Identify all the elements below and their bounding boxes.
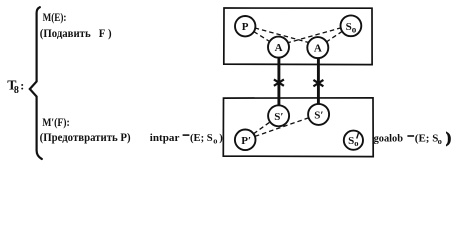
- node P: [235, 16, 255, 36]
- wire thick A right to S' right: [317, 58, 320, 104]
- label T8: [7, 77, 24, 96]
- node A right: [307, 37, 328, 58]
- text goalob -(E; So): [374, 131, 451, 147]
- svg-text:S′: S′: [274, 111, 283, 123]
- svg-text:intpar: intpar: [150, 132, 180, 144]
- svg-text:A: A: [314, 43, 322, 55]
- wire thick A left to S' left: [277, 58, 280, 106]
- node P': [235, 130, 256, 151]
- svg-text:(Подавить F ): (Подавить F ): [40, 26, 112, 40]
- wire dashed So to A right: [326, 31, 342, 42]
- wire dashed P to A right: [255, 28, 309, 43]
- node S' left: [268, 105, 289, 126]
- svg-text:o: o: [213, 136, 217, 145]
- svg-text:goalob: goalob: [374, 133, 403, 145]
- svg-text:P′: P′: [241, 135, 251, 147]
- svg-text:(E; S: (E; S: [415, 133, 439, 145]
- wire dashed P to A left: [254, 32, 270, 42]
- brace left: [30, 7, 42, 159]
- svg-text:A: A: [275, 42, 283, 54]
- svg-text:o: o: [354, 138, 358, 148]
- svg-text:8: 8: [14, 85, 19, 96]
- svg-text:o: o: [352, 24, 357, 34]
- svg-text:(Предотвратить Р): (Предотвратить Р): [40, 130, 131, 144]
- node So': [344, 131, 363, 150]
- node A left: [268, 37, 289, 58]
- svg-text:М′(F):: М′(F):: [42, 115, 70, 129]
- wire dashed P' to S' left: [254, 122, 271, 134]
- mark X on left wire: [274, 79, 284, 85]
- svg-text:o: o: [438, 136, 442, 146]
- mark X on right wire: [313, 80, 323, 86]
- wire dashed P' to S' right: [255, 118, 309, 137]
- svg-text:): ): [446, 131, 451, 147]
- svg-text:(E; S: (E; S: [190, 133, 213, 144]
- text intpar -(E; So): [150, 132, 224, 145]
- node S' right: [308, 104, 329, 125]
- wire dashed So to A left: [287, 28, 341, 43]
- svg-text:P: P: [242, 21, 249, 33]
- box top (situation M(E)): [224, 8, 372, 65]
- svg-text:S: S: [346, 21, 352, 33]
- box bottom (situation M'(F)): [223, 98, 373, 157]
- node So: [341, 15, 362, 36]
- svg-text:М(Е):: М(Е):: [43, 10, 67, 24]
- svg-text::: :: [20, 79, 24, 93]
- svg-text:S′: S′: [314, 109, 323, 121]
